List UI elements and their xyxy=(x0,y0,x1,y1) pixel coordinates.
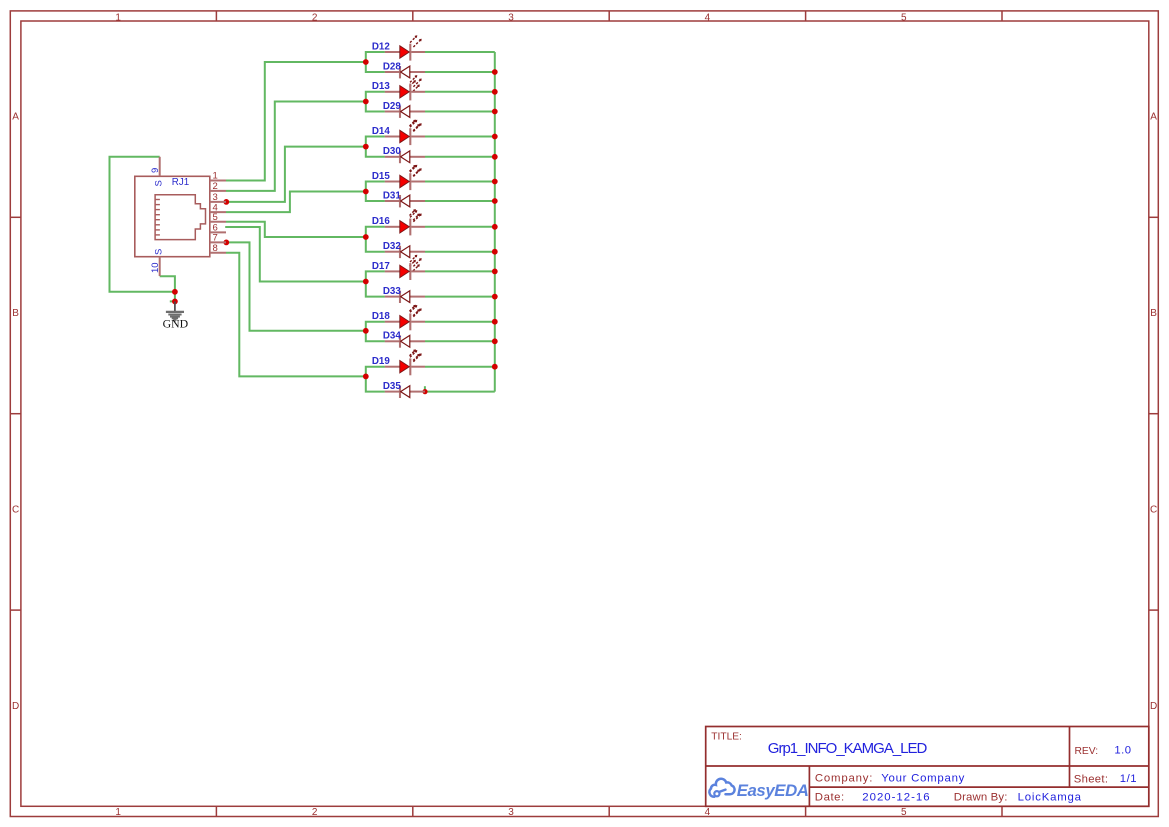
wire bracket for D17/D33 xyxy=(366,271,385,296)
wire RJ1 pin4 to D15/D31 pair xyxy=(226,192,366,213)
svg-text:RJ1: RJ1 xyxy=(172,177,189,188)
wire RJ1 pin10 to GND node xyxy=(160,276,175,292)
junction at pair feed dots xyxy=(363,59,369,379)
LED D12 xyxy=(372,35,425,60)
EasyEDA logo xyxy=(709,779,808,800)
LED D34 xyxy=(383,331,425,361)
svg-text:GND: GND xyxy=(163,317,189,331)
LED D31 xyxy=(383,190,425,220)
wire bracket for D14/D30 xyxy=(366,137,385,157)
svg-text:B: B xyxy=(1150,308,1157,319)
LED D19 xyxy=(372,350,425,375)
wire RJ1 pin8 to D19/D35 pair xyxy=(226,253,366,377)
svg-text:4: 4 xyxy=(705,807,711,818)
wire RJ1 pin9 loop to GND node xyxy=(110,157,175,292)
svg-text:5: 5 xyxy=(213,212,218,223)
LED D18 xyxy=(372,305,425,330)
wire D16 to bus xyxy=(425,226,495,228)
wire stub at GND node xyxy=(170,300,175,302)
svg-text:EasyEDA: EasyEDA xyxy=(737,781,809,800)
svg-text:D12: D12 xyxy=(372,41,391,52)
svg-text:10: 10 xyxy=(150,262,161,273)
svg-text:D32: D32 xyxy=(383,241,402,252)
svg-text:D: D xyxy=(12,701,19,712)
wire RJ1 pin7 to D18/D34 pair xyxy=(226,242,366,330)
wire RJ1 pin2 to D13/D29 pair xyxy=(226,102,366,191)
wire D35 to bus xyxy=(425,391,495,393)
connector RJ1 (RJ45 jack) xyxy=(135,157,226,276)
wire D32 to bus xyxy=(425,251,495,253)
wire D33 to bus xyxy=(425,296,495,298)
LED D28 xyxy=(383,61,425,91)
wire D28 to bus xyxy=(425,71,495,73)
LED D35 xyxy=(383,381,425,398)
svg-text:1: 1 xyxy=(213,171,218,182)
LED D29 xyxy=(383,101,425,131)
wire GND node segment xyxy=(174,292,176,302)
LED D16 xyxy=(372,210,425,235)
svg-text:D: D xyxy=(1150,701,1157,712)
svg-text:D17: D17 xyxy=(372,261,391,272)
svg-text:D15: D15 xyxy=(372,171,391,182)
svg-text:5: 5 xyxy=(901,12,907,23)
junction at GND node upper xyxy=(172,289,178,295)
LED D13 xyxy=(372,75,425,100)
junction at GND node lower xyxy=(172,299,178,305)
wire D17 to bus xyxy=(425,270,495,272)
svg-text:Your Company: Your Company xyxy=(881,772,965,784)
svg-text:D29: D29 xyxy=(383,101,402,112)
svg-text:D18: D18 xyxy=(372,311,391,322)
LED D30 xyxy=(383,146,425,176)
svg-text:D28: D28 xyxy=(383,61,402,72)
svg-text:C: C xyxy=(12,504,19,515)
wire D18 to bus xyxy=(425,321,495,323)
svg-text:3: 3 xyxy=(508,807,514,818)
wire RJ1 pin5 to D16/D32 pair xyxy=(226,222,366,237)
LED D32 xyxy=(383,241,425,271)
junction at RJ1 pin3 xyxy=(223,199,229,205)
junction dots on right bus xyxy=(492,69,498,370)
svg-text:A: A xyxy=(1150,112,1157,123)
svg-text:7: 7 xyxy=(213,233,218,244)
svg-text:2: 2 xyxy=(213,181,218,192)
svg-text:4: 4 xyxy=(705,12,711,23)
svg-text:Date:: Date: xyxy=(815,792,845,804)
svg-text:D35: D35 xyxy=(383,381,402,392)
svg-text:3: 3 xyxy=(508,12,514,23)
svg-text:Grp1_INFO_KAMGA_LED: Grp1_INFO_KAMGA_LED xyxy=(768,740,928,757)
wire D13 to bus xyxy=(425,91,495,93)
junction at RJ1 pin7 xyxy=(223,240,229,246)
svg-text:D19: D19 xyxy=(372,356,391,367)
junction at D35 output xyxy=(422,389,427,394)
wire right bus xyxy=(494,52,496,392)
svg-text:D34: D34 xyxy=(383,331,402,342)
svg-text:S: S xyxy=(154,249,165,255)
svg-text:Company:: Company: xyxy=(815,772,873,784)
svg-text:D13: D13 xyxy=(372,81,391,92)
wire D29 to bus xyxy=(425,111,495,113)
LED D33 xyxy=(383,286,425,316)
svg-text:9: 9 xyxy=(150,168,161,173)
wire near pin6 to D17/D33 pair xyxy=(225,227,366,282)
wire bracket for D13/D29 xyxy=(366,92,385,112)
svg-text:1.0: 1.0 xyxy=(1114,744,1131,756)
svg-text:LoicKamga: LoicKamga xyxy=(1018,792,1082,804)
svg-text:TITLE:: TITLE: xyxy=(711,731,742,742)
wire RJ1 pin3 to D14/D30 pair xyxy=(226,147,366,202)
wire D12 to bus xyxy=(425,51,495,53)
wire bracket for D19/D35 xyxy=(366,367,385,392)
svg-text:D31: D31 xyxy=(383,190,402,201)
svg-text:REV:: REV: xyxy=(1075,746,1099,757)
title block xyxy=(706,727,1149,807)
LED D15 xyxy=(372,165,425,190)
LED D17 xyxy=(372,255,425,280)
wire stub above D35 output xyxy=(424,386,426,390)
wire D34 to bus xyxy=(425,340,495,342)
svg-text:2: 2 xyxy=(312,12,318,23)
wire D30 to bus xyxy=(425,156,495,158)
ground GND xyxy=(163,301,189,330)
svg-text:1: 1 xyxy=(115,807,121,818)
LED D14 xyxy=(372,120,425,145)
wire D19 to bus xyxy=(425,366,495,368)
svg-text:2020-12-16: 2020-12-16 xyxy=(862,792,930,804)
svg-text:2: 2 xyxy=(312,807,318,818)
svg-text:C: C xyxy=(1150,504,1157,515)
svg-text:S: S xyxy=(154,180,165,186)
svg-text:A: A xyxy=(12,112,19,123)
wire RJ1 pin1 to D12/D28 pair xyxy=(226,62,366,181)
wire bracket for D12/D28 xyxy=(366,52,385,72)
svg-text:D30: D30 xyxy=(383,146,402,157)
svg-text:D14: D14 xyxy=(372,126,391,137)
svg-text:D16: D16 xyxy=(372,216,391,227)
wire bracket for D15/D31 xyxy=(366,182,385,202)
svg-text:8: 8 xyxy=(213,243,218,254)
svg-text:Drawn By:: Drawn By: xyxy=(954,792,1008,804)
svg-text:B: B xyxy=(12,308,19,319)
svg-text:Sheet:: Sheet: xyxy=(1074,773,1108,785)
svg-text:1/1: 1/1 xyxy=(1120,773,1137,785)
wire bracket for D16/D32 xyxy=(366,227,385,252)
svg-text:5: 5 xyxy=(901,807,907,818)
wire bracket for D18/D34 xyxy=(366,322,385,342)
wire D14 to bus xyxy=(425,136,495,138)
svg-text:D33: D33 xyxy=(383,286,402,297)
svg-text:1: 1 xyxy=(115,12,121,23)
wire D31 to bus xyxy=(425,200,495,202)
wire D15 to bus xyxy=(425,181,495,183)
